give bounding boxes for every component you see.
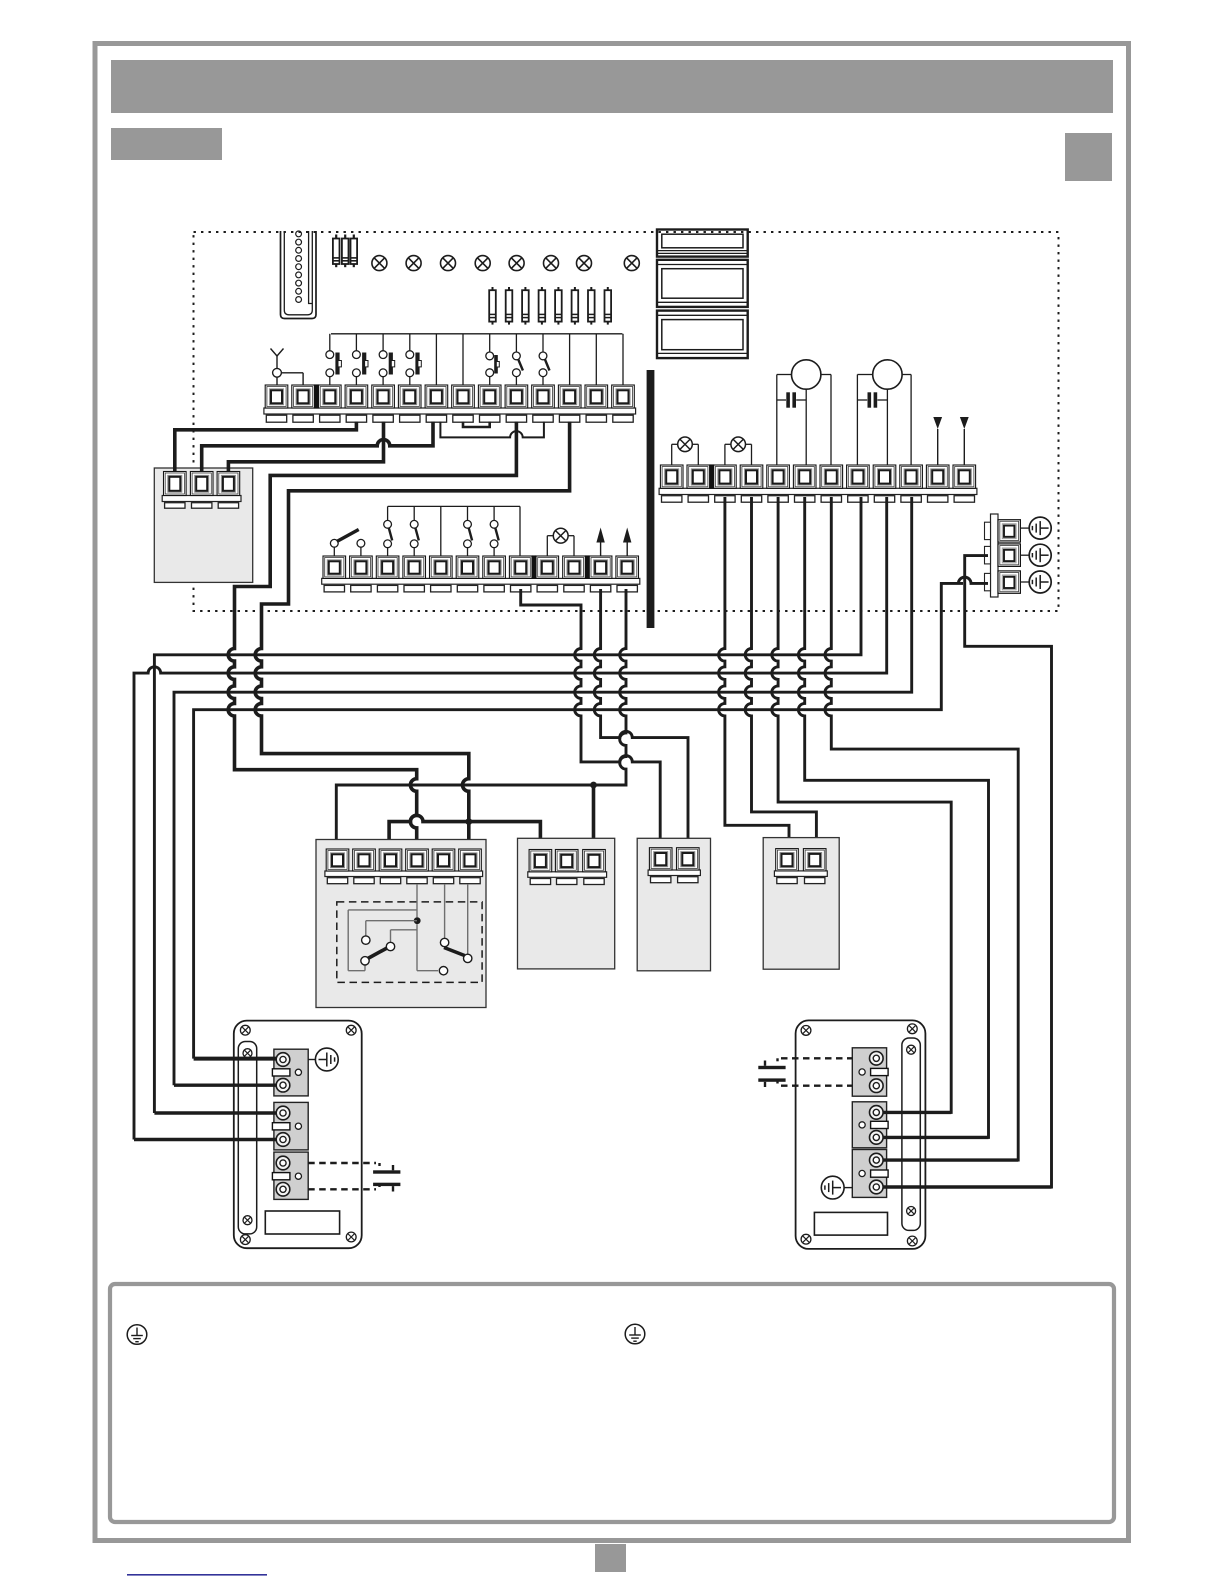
wire: junction down to B2-3: [592, 785, 596, 850]
jumper X1-8 to X1-9: [463, 422, 490, 428]
board divider bar: [647, 370, 655, 628]
wire X1-7 to X4-2 (hop over X1-5 drop): [202, 422, 433, 472]
bus wires to X3-5 and X3-8: [441, 506, 520, 556]
PE earth symbol note 1: [127, 1325, 147, 1345]
terminal connector MR-1 (capacitor): [852, 1048, 888, 1096]
terminal connector MR-3: [852, 1150, 888, 1198]
jumper X1-7 to X1-11 (hop over X1-10 drop): [440, 422, 544, 438]
lamp symbol above X2-1,2 (flashing light): [672, 437, 699, 465]
wire: X3-11 to B3-2: [594, 589, 688, 848]
wire A: X1-10 to selector SEL-4: [228, 422, 516, 850]
terminal block B3 (2-way): [648, 848, 700, 883]
wires into panel MR: [883, 1112, 1052, 1187]
motor M2 with capacitor: [857, 360, 911, 465]
terminal block SEL (6-way on selector box): [325, 849, 483, 884]
page corner index box (blank gray): [1065, 133, 1112, 181]
terminal block B4 (2-way): [774, 849, 827, 884]
wire: common line SEL-1 to B2-3 and X3-12: [336, 589, 626, 849]
page number tab: [595, 1544, 626, 1572]
capacitor C1 with dashed leads (left): [308, 1163, 400, 1192]
junction node on wire B: [465, 818, 472, 825]
motor junction panel MR (right motor): [796, 1020, 926, 1249]
PE earth symbols beside X5: [1020, 517, 1051, 593]
fuse bank F4-F11 (8 vertical fuses): [489, 287, 611, 325]
wire H2: motor-left terminal to X2-9 (hop at left end): [134, 497, 887, 1140]
push buttons S1-S4 above X1-3..6: [326, 334, 623, 385]
wire: X2-7 to motor-right terminal: [825, 497, 1018, 1160]
label plate ML: [265, 1211, 339, 1234]
wire X1-4 to X4-1: [175, 422, 357, 472]
accessory box B3: [637, 838, 710, 971]
lamp symbol above X2-3,4 (courtesy light): [725, 437, 752, 465]
wire H1: motor-left terminal to X2-8: [154, 497, 861, 1113]
PE symbol on panel ML: [308, 1048, 338, 1071]
relay K1: [657, 230, 748, 257]
wires into panel ML: [134, 1059, 276, 1140]
limit switch bus: [388, 505, 520, 507]
mounting bar MR: [902, 1038, 920, 1230]
earth terminal block X5 (3-way vertical with PE symbols): [985, 514, 1021, 597]
PE symbol on panel MR: [821, 1176, 852, 1199]
wire H4: PE line motor-left to X5-3: [194, 577, 988, 1058]
terminal connector ML-2: [272, 1102, 308, 1150]
wire: X2-3 to B4-1: [719, 497, 789, 849]
wire: X3-8 to B3-1: [521, 589, 661, 848]
switches above X1-10, X1-11: [513, 334, 550, 385]
limit switches above X3-3,4 and X3-6,7: [384, 506, 499, 556]
terminal connector ML-3 (capacitor): [272, 1152, 308, 1199]
capacitor C2 with dashed leads (right): [758, 1058, 852, 1087]
toggle switch above X3-1,2: [330, 530, 364, 557]
wire: X2-4 to B4-2: [745, 497, 816, 849]
motor junction panel ML (left motor): [234, 1021, 362, 1249]
terminal block X4 (3-way on power box): [162, 472, 241, 509]
wire H3: motor-left terminal to X2-10: [174, 497, 912, 1085]
notes box (bottom): [110, 1284, 1114, 1522]
terminal block X1 (14-way, control inputs): [264, 384, 636, 422]
mounting screws ML: [240, 1025, 356, 1244]
PE earth symbol note 2: [625, 1324, 645, 1344]
wires bus to X1-7, X1-8: [436, 334, 463, 385]
edge connector J1 (socket with 9 pins): [281, 231, 317, 319]
antenna down-arrows above X2-11,12: [933, 417, 968, 465]
footer link underline: [127, 1574, 267, 1576]
junction node to B2-3: [590, 782, 597, 789]
page frame (outer gray border): [95, 44, 1129, 1541]
relay box B2: [518, 838, 615, 969]
wire: X2-6 to motor-right terminal: [798, 497, 988, 1137]
terminal connector MR-2: [852, 1102, 888, 1148]
selector internal dashed enclosure: [337, 902, 482, 983]
fuses F1-F3 (vertical cartridge fuses): [333, 235, 357, 268]
motor M1 with capacitor: [777, 360, 831, 465]
section label box (blank gray): [111, 128, 222, 160]
mounting screws MR: [801, 1024, 917, 1246]
up-arrows above X3-11,12: [596, 528, 631, 557]
terminal block X2 (12-way, power outputs): [659, 464, 977, 502]
wire B: X1-12 to selector SEL-6: [255, 422, 569, 850]
relay K2: [657, 260, 748, 307]
terminal connector ML-1 (line in): [272, 1049, 308, 1096]
control board dotted outline: [194, 232, 1059, 611]
lamp above X3-9,10 (gate open indicator): [547, 528, 574, 556]
wire: junction to SEL-3 and relay box B2-1: [389, 815, 540, 849]
indicator LEDs D1-D8 (circle-X lamps): [372, 256, 639, 271]
terminal block X3 (12-way, limit switches): [322, 555, 640, 592]
label plate MR: [814, 1212, 887, 1235]
relay K3: [657, 311, 748, 359]
mounting bar ML: [238, 1042, 256, 1234]
wire: X2-5 to motor-right terminal: [772, 497, 951, 1112]
header title bar (blank gray): [111, 60, 1113, 113]
antenna symbol: [271, 349, 304, 386]
terminal block B2 (3-way): [528, 850, 607, 885]
power supply terminal box (230V input): [154, 468, 252, 582]
wire: X5-2 PE to motor-right terminal: [886, 556, 1052, 1187]
wires bus to X1-12..14: [570, 334, 623, 385]
selector internal circuit (2-pole switch): [348, 884, 472, 975]
wire X1-5 to X4-3: [228, 422, 383, 472]
accessory box B4: [763, 838, 839, 970]
selector box B1 (key selector): [316, 840, 486, 1008]
NC contact above X1-9: [486, 334, 499, 385]
